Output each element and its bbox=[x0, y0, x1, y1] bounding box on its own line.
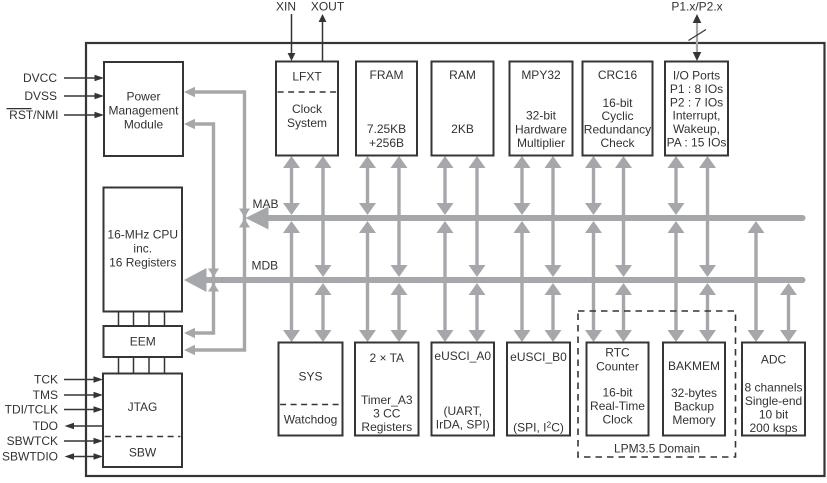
wire MPY32/eUSCI_B0 MAB-to-bottom bbox=[514, 221, 531, 342]
pin wire TDI/TCLK bbox=[64, 406, 103, 413]
block I/O Ports bbox=[665, 62, 728, 156]
svg-text:Registers: Registers bbox=[361, 420, 412, 434]
wire LFXT/SYS MAB-to-bottom bbox=[283, 221, 300, 342]
svg-text:SBWTCK: SBWTCK bbox=[7, 434, 58, 448]
wire FRAM/TimerA MAB-to-bottom bbox=[359, 221, 376, 342]
svg-text:XOUT: XOUT bbox=[311, 0, 345, 13]
block RTC Counter bbox=[587, 343, 649, 436]
svg-text:Clock: Clock bbox=[292, 102, 323, 116]
svg-text:RAM: RAM bbox=[449, 68, 476, 82]
svg-text:16-bit: 16-bit bbox=[602, 386, 633, 400]
wire MPY32/eUSCI_B0 top-to-MAB bbox=[514, 156, 531, 215]
bus MAB left arrowhead bbox=[246, 207, 269, 230]
wire PMM-MDB-EEM (gray) bbox=[184, 119, 219, 339]
wire RAM/eUSCI_A0 MDB-to-bottom bbox=[469, 283, 486, 342]
pin wire P1.x/P2.x (bidirectional, gray shaft) bbox=[693, 14, 702, 61]
wire LFXT/SYS top-to-MAB bbox=[283, 156, 300, 215]
svg-text:(SPI, I2C): (SPI, I2C) bbox=[513, 420, 564, 435]
svg-text:3 CC: 3 CC bbox=[373, 407, 401, 421]
pin wire TCK bbox=[64, 376, 103, 383]
bus MAB horizontal bar bbox=[267, 215, 803, 221]
svg-text:SBWTDIO: SBWTDIO bbox=[2, 450, 58, 464]
svg-text:IrDA, SPI): IrDA, SPI) bbox=[436, 418, 490, 432]
block RAM bbox=[432, 62, 494, 156]
svg-text:Multiplier: Multiplier bbox=[517, 136, 565, 150]
svg-text:16 Registers: 16 Registers bbox=[109, 255, 176, 269]
pin wire TDO bbox=[65, 423, 104, 430]
block EEM bbox=[104, 326, 183, 357]
svg-text:MPY32: MPY32 bbox=[521, 68, 561, 82]
svg-text:Module: Module bbox=[124, 117, 164, 131]
wire ADC MDB-to-ADC bbox=[780, 283, 797, 342]
block BAKMEM bbox=[663, 343, 725, 436]
wire CRC16/RTC MAB-to-bottom bbox=[585, 221, 602, 342]
wire RAM/eUSCI_A0 top-to-MAB bbox=[437, 156, 454, 215]
svg-text:MAB: MAB bbox=[253, 197, 279, 211]
wire CRC16/RTC top-to-MAB bbox=[585, 156, 602, 215]
block CPU bbox=[104, 188, 183, 312]
wire FRAM/TimerA top-to-MDB bbox=[391, 156, 408, 277]
svg-text:+256B: +256B bbox=[369, 136, 404, 150]
svg-text:Check: Check bbox=[600, 136, 635, 150]
wire CPU-EEM connector lines bbox=[119, 311, 165, 327]
wire FRAM/TimerA MDB-to-bottom bbox=[391, 283, 408, 342]
svg-text:PA : 15 IOs: PA : 15 IOs bbox=[667, 136, 727, 150]
divider JTAG/SBW dashed line bbox=[105, 436, 181, 438]
wire IOports/BAKMEM top-to-MAB bbox=[668, 156, 685, 215]
wire LFXT/SYS MDB-to-bottom bbox=[315, 283, 332, 342]
svg-text:Timer_A3: Timer_A3 bbox=[361, 393, 413, 407]
svg-text:200 ksps: 200 ksps bbox=[749, 421, 797, 435]
block SYS/Watchdog bbox=[279, 343, 343, 436]
svg-text:Memory: Memory bbox=[672, 413, 715, 427]
label RST/NMI with overline on RST bbox=[7, 108, 59, 122]
pin wire SBWTCK bbox=[64, 438, 103, 445]
svg-text:Watchdog: Watchdog bbox=[284, 413, 338, 427]
svg-text:SYS: SYS bbox=[298, 370, 322, 384]
svg-text:RST/NMI: RST/NMI bbox=[9, 108, 58, 122]
svg-text:CRC16: CRC16 bbox=[598, 68, 638, 82]
svg-text:XIN: XIN bbox=[276, 0, 296, 13]
svg-text:TCK: TCK bbox=[34, 373, 58, 387]
svg-text:eUSCI_A0: eUSCI_A0 bbox=[434, 349, 491, 363]
svg-text:10 bit: 10 bit bbox=[759, 408, 789, 422]
svg-text:TMS: TMS bbox=[33, 388, 58, 402]
pin wire TMS bbox=[64, 392, 103, 399]
svg-text:LPM3.5 Domain: LPM3.5 Domain bbox=[614, 442, 700, 456]
wire PMM-MAB-EEM (gray) bbox=[184, 87, 250, 356]
svg-text:eUSCI_B0: eUSCI_B0 bbox=[510, 350, 567, 364]
pin wire RST/NMI bbox=[64, 112, 104, 119]
svg-text:P2 : 7 IOs: P2 : 7 IOs bbox=[670, 95, 723, 109]
svg-text:Real-Time: Real-Time bbox=[590, 399, 645, 413]
svg-text:inc.: inc. bbox=[133, 242, 152, 256]
wire RAM/eUSCI_A0 MAB-to-bottom bbox=[437, 221, 454, 342]
svg-text:SBW: SBW bbox=[129, 446, 157, 460]
block Timer_A3 bbox=[355, 343, 419, 436]
svg-text:ADC: ADC bbox=[761, 353, 787, 367]
svg-text:BAKMEM: BAKMEM bbox=[668, 359, 720, 373]
wire IOports/BAKMEM MAB-to-bottom bbox=[668, 221, 685, 342]
wire ADC MAB-to-ADC bbox=[748, 221, 765, 342]
block FRAM bbox=[356, 62, 417, 156]
svg-text:LFXT: LFXT bbox=[292, 70, 322, 84]
svg-text:Redundancy: Redundancy bbox=[584, 123, 651, 137]
svg-text:Wakeup,: Wakeup, bbox=[673, 122, 720, 136]
block eUSCI_A0 bbox=[432, 343, 495, 436]
block ADC bbox=[742, 343, 805, 436]
svg-text:32-bytes: 32-bytes bbox=[671, 386, 717, 400]
svg-text:Clock: Clock bbox=[602, 413, 633, 427]
wire LFXT/SYS top-to-MDB bbox=[315, 156, 332, 277]
bus-width slash on P1.x/P2.x wire bbox=[689, 30, 707, 41]
wire MPY32/eUSCI_B0 top-to-MDB bbox=[545, 156, 562, 277]
wire MPY32/eUSCI_B0 MDB-to-bottom bbox=[545, 283, 562, 342]
svg-text:System: System bbox=[287, 116, 327, 130]
svg-text:Cyclic: Cyclic bbox=[602, 109, 634, 123]
pin wire XIN (into LFXT) bbox=[288, 14, 296, 61]
pin wire XOUT (out of LFXT) bbox=[319, 14, 327, 61]
svg-text:MDB: MDB bbox=[252, 259, 279, 273]
pin wire SBWTDIO (bidirectional) bbox=[65, 453, 104, 460]
wire IOports/BAKMEM top-to-MDB bbox=[699, 156, 716, 277]
block CRC16 bbox=[583, 62, 653, 156]
svg-text:16-bit: 16-bit bbox=[602, 96, 633, 110]
svg-text:TDO: TDO bbox=[33, 419, 58, 433]
svg-text:FRAM: FRAM bbox=[370, 68, 404, 82]
svg-text:Backup: Backup bbox=[674, 400, 714, 414]
divider LFXT dashed line bbox=[278, 91, 337, 93]
svg-text:2KB: 2KB bbox=[451, 122, 474, 136]
block MPY32 bbox=[510, 62, 573, 156]
svg-text:P1 : 8 IOs: P1 : 8 IOs bbox=[670, 82, 723, 96]
divider SYS dashed line bbox=[280, 404, 341, 406]
svg-text:TDI/TCLK: TDI/TCLK bbox=[5, 403, 58, 417]
pin wire DVCC bbox=[64, 75, 104, 82]
svg-text:Management: Management bbox=[108, 104, 179, 118]
svg-text:16-MHz CPU: 16-MHz CPU bbox=[107, 228, 178, 242]
wire EEM-JTAG connector lines bbox=[119, 356, 165, 374]
svg-text:(UART,: (UART, bbox=[444, 404, 482, 418]
wire CRC16/RTC top-to-MDB bbox=[615, 156, 632, 277]
svg-text:32-bit: 32-bit bbox=[526, 109, 557, 123]
bus MDB horizontal bar bbox=[205, 277, 803, 283]
wire CRC16/RTC MDB-to-bottom bbox=[615, 283, 632, 342]
svg-text:Single-end: Single-end bbox=[745, 394, 802, 408]
wire RAM/eUSCI_A0 top-to-MDB bbox=[469, 156, 486, 277]
block eUSCI_B0 bbox=[507, 343, 570, 436]
svg-text:DVCC: DVCC bbox=[23, 71, 57, 85]
bus MDB left arrowhead into CPU bbox=[184, 268, 207, 292]
svg-text:DVSS: DVSS bbox=[24, 89, 57, 103]
block LFXT Clock System bbox=[276, 62, 338, 156]
svg-text:EEM: EEM bbox=[130, 335, 156, 349]
svg-text:P1.x/P2.x: P1.x/P2.x bbox=[671, 0, 722, 13]
LPM3.5 Domain dashed boundary bbox=[578, 311, 736, 457]
svg-text:Counter: Counter bbox=[596, 360, 639, 374]
svg-text:7.25KB: 7.25KB bbox=[367, 122, 406, 136]
pin wire DVSS bbox=[64, 93, 104, 100]
wire IOports/BAKMEM MDB-to-bottom bbox=[699, 283, 716, 342]
svg-text:2 × TA: 2 × TA bbox=[369, 351, 404, 365]
block JTAG/SBW bbox=[103, 374, 182, 468]
wire FRAM/TimerA top-to-MAB bbox=[359, 156, 376, 215]
svg-text:JTAG: JTAG bbox=[128, 400, 158, 414]
svg-text:Hardware: Hardware bbox=[515, 122, 567, 136]
svg-text:8 channels: 8 channels bbox=[744, 381, 802, 395]
svg-text:Power: Power bbox=[126, 90, 160, 104]
block Power Management Module bbox=[104, 62, 183, 156]
svg-text:I/O Ports: I/O Ports bbox=[673, 69, 720, 83]
svg-text:Interrupt,: Interrupt, bbox=[672, 109, 720, 123]
svg-text:RTC: RTC bbox=[605, 346, 630, 360]
